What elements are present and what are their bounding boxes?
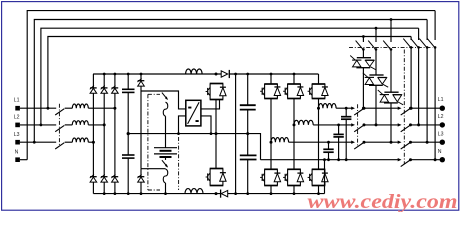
wire DC+ bus inverter section xyxy=(229,73,318,75)
node U1 out- midline xyxy=(210,132,213,135)
wire V1 emitter to midline xyxy=(215,100,217,134)
inductor input L1 xyxy=(72,104,88,108)
node bypass L2 tap xyxy=(40,124,43,127)
wire input L2 row left xyxy=(20,124,56,126)
diode D9 boost top xyxy=(221,70,229,78)
node bypass L3 tap xyxy=(33,141,36,144)
switch battery disconnect top xyxy=(162,93,168,100)
linkage output isolation xyxy=(403,50,405,165)
node bypass-N xyxy=(434,158,437,161)
node C6 top xyxy=(337,124,340,127)
svg-text:L2: L2 xyxy=(438,114,444,120)
wire U1 out+ to boost node xyxy=(201,100,220,109)
node SCR3-L3 xyxy=(390,141,393,144)
diode rectifier bottom D2' xyxy=(101,174,108,193)
node input L1-rectifier xyxy=(113,107,116,110)
transistor V7 inverter B bottom IGBT xyxy=(283,169,304,185)
node bypass L1 tap xyxy=(47,107,50,110)
wire L2 to bypass switch xyxy=(364,124,399,126)
switch battery disconnect bottom xyxy=(162,160,168,167)
diode D10 boost bottom xyxy=(221,190,228,198)
wire DC- end to neutral xyxy=(324,160,326,194)
wire bypass L2 drop xyxy=(418,48,420,125)
svg-text:www.cediy.com: www.cediy.com xyxy=(308,191,458,212)
node bus taps bottom xyxy=(103,192,106,195)
switch manual bypass N xyxy=(434,11,436,40)
transistor V6 inverter A bottom IGBT xyxy=(260,169,281,185)
node dc-link midpoint xyxy=(127,132,130,135)
node DC- neutral tie xyxy=(323,158,326,161)
wire bypass L3 drop xyxy=(426,48,428,142)
wire bypass L2 riser+top xyxy=(41,28,419,125)
wire battery fuse to bus xyxy=(165,183,167,194)
diode battery bottom D8 xyxy=(137,169,144,194)
inductor output A xyxy=(271,138,289,143)
node bypass-L3 xyxy=(426,141,429,144)
node U1 in- midline xyxy=(177,132,180,135)
wire U1 out- to midline xyxy=(201,116,211,134)
diode battery top D7 xyxy=(137,74,144,169)
transistor V2 boost bottom IGBT xyxy=(206,169,227,186)
node C6 bottom xyxy=(337,158,340,161)
node SCR2 tap xyxy=(375,27,378,30)
converter U1 dc-dc box xyxy=(186,100,201,126)
wire bypass L1 riser+top xyxy=(48,37,411,109)
switch Q1 input L1 xyxy=(55,109,64,115)
switch S1 output L1 xyxy=(398,107,402,110)
transistor V3 inverter A top IGBT xyxy=(260,84,281,99)
node SCR3 tap xyxy=(390,18,393,21)
inductor input L2 xyxy=(72,121,88,125)
node C5 bottom xyxy=(345,158,348,161)
switch S3 output L3 xyxy=(398,141,402,144)
transistor V4 inverter B top IGBT xyxy=(283,84,304,99)
wire SCR2 out to L2 xyxy=(375,85,377,125)
inductor boost bottom xyxy=(185,189,203,194)
wire inverter A stubs xyxy=(270,74,272,84)
battery cabinet dashed box xyxy=(148,94,179,190)
switch K1 output L1 xyxy=(351,107,355,110)
switch K3 output L3 xyxy=(351,141,355,144)
output terminal L1 xyxy=(440,106,445,111)
node bypass-L1 xyxy=(410,107,413,110)
fuse F2 battery bottom xyxy=(163,169,168,183)
wire bypass L3 riser+top xyxy=(34,20,427,143)
node boost top IGBT tap xyxy=(215,73,218,76)
capacitor C5 filter L1 xyxy=(341,108,351,160)
transistor V5 inverter C top IGBT xyxy=(308,84,329,99)
diode rectifier top D1 xyxy=(90,74,97,177)
wire DC midpoint line xyxy=(128,134,260,160)
node SCR1 tap xyxy=(362,35,365,38)
node SCR2-L2 xyxy=(375,123,378,126)
diode rectifier bottom D1' xyxy=(90,174,97,193)
switch static bypass 3 xyxy=(383,41,391,50)
switch manual bypass L2 xyxy=(418,28,420,40)
node bypass-L2 xyxy=(417,123,420,126)
wire SCR3 out to L3 xyxy=(390,103,392,142)
switch manual bypass L1 xyxy=(410,37,412,41)
node phase B xyxy=(293,123,296,126)
inductor output B xyxy=(294,120,313,125)
wire L3 to terminal xyxy=(411,141,443,143)
svg-text:L2: L2 xyxy=(14,114,20,120)
wire phase C row xyxy=(336,107,352,109)
output terminal L3 xyxy=(440,140,445,145)
switch manual bypass L3 xyxy=(426,20,428,41)
node SCR1-L1 xyxy=(362,107,365,110)
switch Q2 input L2 xyxy=(55,125,64,131)
wire DC+ bus rectifier section xyxy=(93,73,221,75)
transistor V8 inverter C bottom IGBT xyxy=(308,169,329,185)
input terminal L1 xyxy=(15,106,20,111)
node V1 midline xyxy=(215,132,218,135)
svg-text:N: N xyxy=(15,149,19,155)
wire SCR3 feed xyxy=(390,20,392,43)
wire input L3 row left xyxy=(20,141,56,143)
node C7 top xyxy=(327,141,330,144)
switch static bypass 1 xyxy=(356,41,364,50)
wire N to terminal xyxy=(411,159,443,161)
linkage bypass switches xyxy=(349,47,433,49)
switch S2 output L2 xyxy=(398,123,402,126)
inductor boost top xyxy=(186,69,203,74)
linkage output contactor xyxy=(357,104,359,146)
linkage input breaker xyxy=(58,104,60,147)
node C5 top xyxy=(345,107,348,110)
capacitor C7 filter L3 xyxy=(323,142,333,160)
wire inverter C stubs xyxy=(317,73,319,75)
diode rectifier bottom D3' xyxy=(111,174,118,193)
wire input L3 row mid xyxy=(65,141,73,143)
wire input L1 row mid xyxy=(65,107,73,109)
node bus inverter taps bottom xyxy=(234,192,237,195)
switch K2 output L2 xyxy=(351,123,355,126)
svg-text:L3: L3 xyxy=(438,131,444,137)
inductor output C xyxy=(319,104,337,109)
wire battery+ feed xyxy=(141,91,186,109)
switch Q3 input L3 xyxy=(55,143,64,149)
wire DC- bus rectifier section xyxy=(93,193,220,195)
wire inverter B stubs xyxy=(293,74,295,84)
wire input L3 row to rectifier xyxy=(88,141,93,143)
capacitor C1 dc-link upper xyxy=(122,74,135,155)
node boost bottom IGBT tap xyxy=(215,192,218,195)
wire bypass N drop xyxy=(434,48,436,160)
svg-text:L1: L1 xyxy=(14,98,20,104)
wire input L1 row left xyxy=(20,107,56,109)
thyristor pair VT2 static bypass L2 xyxy=(363,73,388,87)
thyristor pair VT1 static bypass L1 xyxy=(350,56,375,70)
inductor input L3 xyxy=(72,138,88,142)
switch S4 output N xyxy=(398,158,402,161)
wire phase A row xyxy=(289,141,353,143)
wire V2 collector to midline xyxy=(215,134,217,169)
node C7 bottom xyxy=(327,158,330,161)
battery BT1 xyxy=(154,148,177,157)
capacitor C6 filter L2 xyxy=(333,125,343,160)
fuse F1 battery top xyxy=(163,102,168,116)
output terminal N xyxy=(440,157,445,162)
node input L2-rectifier xyxy=(103,123,106,126)
wire input L2 row mid xyxy=(65,124,73,126)
wire battery top lead xyxy=(165,116,167,148)
node C3-C4 midline xyxy=(246,132,249,135)
wire phase B row xyxy=(313,124,352,126)
wire SCR2 feed xyxy=(375,28,377,42)
wire battery- crossover xyxy=(141,168,166,170)
wire input N to riser xyxy=(20,159,27,161)
capacitor C4 bus lower xyxy=(240,155,257,193)
wire L2 to terminal xyxy=(411,124,443,126)
wire SCR1 feed xyxy=(362,37,364,43)
wire L1 to bypass switch xyxy=(364,107,399,109)
node bus taps top xyxy=(103,73,106,76)
wire neutral line xyxy=(261,159,399,161)
svg-text:N: N xyxy=(438,149,442,155)
wire bypass L1 drop xyxy=(410,48,412,108)
output terminal L2 xyxy=(440,122,445,127)
wire input L1 row to rectifier xyxy=(88,107,115,109)
wire bypass N riser+top xyxy=(27,11,435,160)
wire input L2 row to rectifier xyxy=(88,124,104,126)
switch static bypass 2 xyxy=(368,41,376,50)
wire L3 to bypass switch xyxy=(364,141,399,143)
svg-text:L3: L3 xyxy=(14,132,20,138)
diode rectifier top D2 xyxy=(101,74,108,177)
wire DC- bus inverter section xyxy=(228,193,325,195)
node input L3-rectifier xyxy=(92,141,95,144)
wire tie vertical xyxy=(235,74,237,194)
svg-text:L1: L1 xyxy=(438,97,444,103)
input terminal N xyxy=(15,157,20,162)
diode rectifier top D3 xyxy=(111,74,118,177)
node phase C xyxy=(317,107,320,110)
wire battery bottom lead xyxy=(165,157,167,160)
capacitor C3 bus upper xyxy=(240,74,256,155)
node bus inverter taps top xyxy=(234,73,237,76)
input terminal L3 xyxy=(15,140,20,145)
wire L1 to terminal xyxy=(411,107,443,109)
capacitor C2 dc-link lower xyxy=(122,155,135,194)
thyristor pair VT3 static bypass L3 xyxy=(378,90,403,105)
input terminal L2 xyxy=(15,123,20,128)
wire SCR1 out to L1 xyxy=(362,68,364,109)
transistor V1 boost top IGBT xyxy=(206,84,227,100)
wire U1 in- to midline xyxy=(179,116,186,134)
node phase A xyxy=(270,141,273,144)
